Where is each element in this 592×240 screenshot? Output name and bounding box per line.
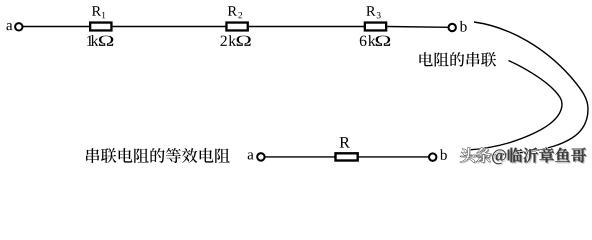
terminal b (top, open circle) [449, 24, 456, 31]
watermark 头条 (outlined style) [460, 148, 491, 163]
callout curve outer (from top b sweeping to equivalent circuit) [470, 22, 588, 156]
value 1kΩ [87, 36, 92, 46]
wire R2 to R3 [249, 26, 365, 28]
node b (top terminal label) [460, 21, 467, 32]
label R2 [228, 6, 237, 15]
label R3 [366, 6, 375, 15]
value 6kΩ [360, 36, 367, 46]
callout curve inner (from 电阻的串联 label) [468, 61, 562, 151]
resistor R1 [90, 23, 111, 31]
wire R1 to R2 [113, 26, 227, 28]
terminal b (bottom, open circle) [429, 153, 436, 160]
terminal a (top, open circle) [15, 23, 22, 30]
node b (bottom terminal label) [440, 149, 447, 160]
wire R3 to b [387, 26, 448, 29]
wire R to b [359, 156, 429, 158]
terminal a (bottom, open circle) [257, 153, 264, 160]
resistor R (equivalent) [336, 153, 358, 160]
caption 串联电阻的等效电阻 (equivalent resistance of series resistors) [86, 148, 230, 163]
resistor R3 [365, 23, 386, 31]
label R [340, 137, 350, 147]
wire a to R1 [22, 26, 90, 28]
node a (top terminal label) [6, 23, 12, 30]
resistor R2 [226, 23, 247, 31]
watermark @临沂章鱼哥 [492, 147, 586, 163]
wire a to R [265, 156, 336, 158]
watermark halo (white outline pass) [460, 147, 586, 163]
label 电阻的串联 (series connection of resistors) [419, 52, 496, 67]
label R1 [92, 6, 101, 15]
watermark shadow 头条@临沂章鱼哥 [461, 149, 587, 165]
node a (bottom terminal label) [248, 152, 254, 159]
value 2kΩ [220, 36, 226, 46]
